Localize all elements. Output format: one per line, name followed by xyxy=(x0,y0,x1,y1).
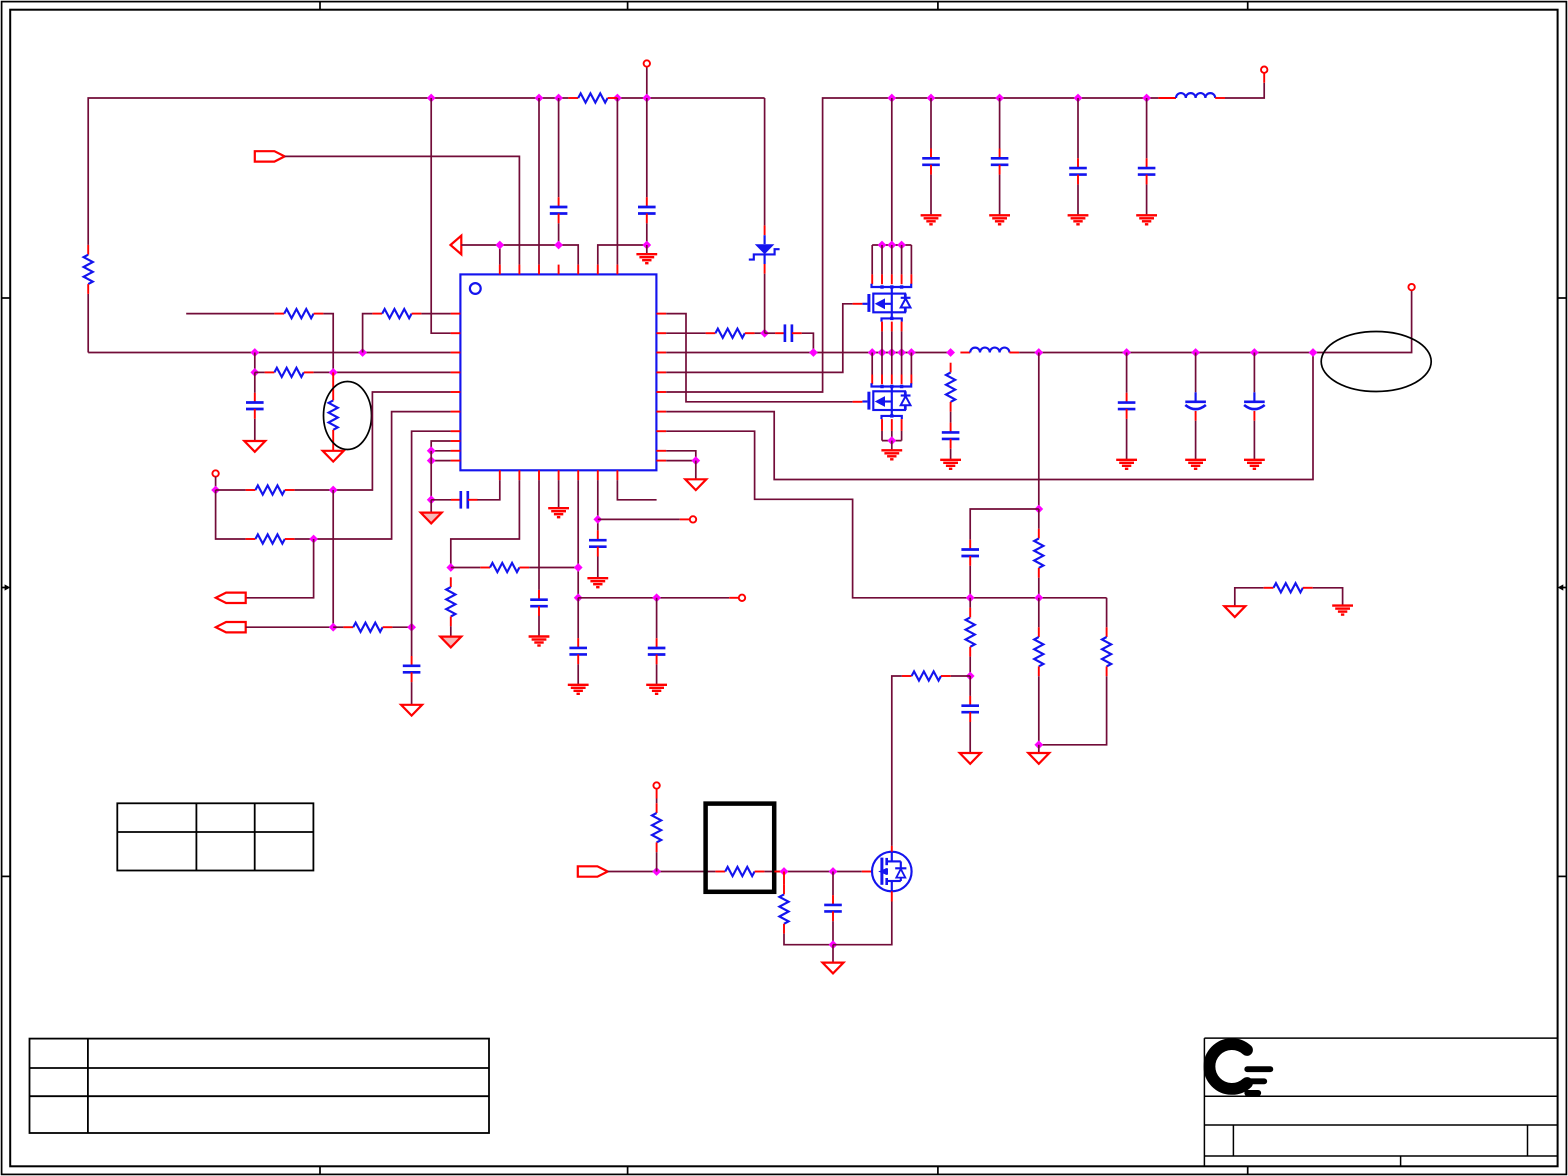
resistor R9 xyxy=(343,623,392,632)
wire pin460 right xyxy=(666,460,696,462)
wire ILIM net xyxy=(598,518,680,520)
wire C16 top xyxy=(1195,353,1197,393)
wire R12 to dot xyxy=(755,332,765,334)
port OUT2 xyxy=(216,622,246,632)
wire C11 top xyxy=(999,98,1001,149)
logo company mark xyxy=(1209,1044,1270,1093)
wire TP1 stub xyxy=(215,477,217,490)
wire pin431 route xyxy=(666,431,1106,598)
resistor R18 xyxy=(902,671,951,680)
wire AGND tie left xyxy=(1235,588,1264,606)
capacitor C16 polarized xyxy=(1185,392,1206,421)
pin TP1 open circle xyxy=(212,470,218,476)
wire L2 red lead2 xyxy=(1009,352,1019,354)
wire AVDD line xyxy=(461,245,578,265)
resistor R4 xyxy=(372,309,421,318)
junction x833 y871 xyxy=(829,867,838,876)
wire C17 gnd xyxy=(1253,421,1255,460)
junction VOUT x1313 xyxy=(1309,348,1318,357)
wire C5 left lead xyxy=(431,499,451,501)
wire bus to pin VCC1 xyxy=(431,98,450,333)
ground GND5 triangle xyxy=(421,513,442,524)
wire R7 right xyxy=(295,489,334,491)
wire pin558 down xyxy=(558,480,560,508)
wire pin431 net xyxy=(412,431,451,627)
junction CTRL x656 xyxy=(652,867,661,876)
capacitor C3 xyxy=(246,393,264,419)
junction VDD C13 xyxy=(1142,94,1151,103)
inductor L2 xyxy=(970,348,1009,353)
wire C11 gnd xyxy=(999,175,1001,215)
wire pin578 down xyxy=(577,480,579,598)
wire R3 to corner xyxy=(323,314,333,373)
wire AVDD stub1 xyxy=(499,245,501,265)
capacitor C1 xyxy=(550,197,568,223)
wire VIN bus top xyxy=(87,294,89,353)
capacitor C5 xyxy=(451,491,478,509)
resistor R11 xyxy=(446,577,455,626)
junction x431 y450 xyxy=(427,446,436,455)
wire R5 left lead xyxy=(255,371,265,373)
resistor R3 xyxy=(274,309,323,318)
pin TP3 open circle xyxy=(690,516,696,522)
resistor R5 xyxy=(265,368,314,377)
capacitor C7 xyxy=(569,638,587,664)
junction VIN bus x558 xyxy=(554,94,563,103)
ground C16 earth xyxy=(1185,460,1206,469)
capacitor C19 xyxy=(961,696,979,722)
wire C21 gnd xyxy=(656,664,658,684)
junction x313 y539 xyxy=(309,535,318,544)
wire Q2 source pins xyxy=(882,419,902,441)
wire C3 bottom xyxy=(254,419,256,441)
ground C21 earth xyxy=(646,685,667,694)
wire C20 top xyxy=(832,872,834,896)
resistor R14 xyxy=(1034,529,1043,578)
junction AVDD x499 xyxy=(495,241,504,250)
resistor R21 sense xyxy=(715,867,764,876)
wire R16 bottom xyxy=(1038,676,1040,745)
transistor Q1 high-side MOSFET xyxy=(862,294,910,313)
ground GND18 triangle xyxy=(823,963,844,974)
junction x431 y460 xyxy=(427,456,436,465)
ground C17 earth xyxy=(1244,460,1265,469)
wire R15 bottom xyxy=(969,657,971,676)
junction x1038 y597 xyxy=(1034,593,1043,602)
junction x431 y499 xyxy=(427,495,436,504)
border zone arrow right xyxy=(1558,584,1567,590)
capacitor C18 xyxy=(961,540,979,566)
wire Q1 gate red lead xyxy=(853,303,863,305)
junction x450 y567 xyxy=(446,563,455,572)
port EN input xyxy=(255,151,285,161)
wire snubber gnd xyxy=(950,449,952,460)
junction SW x950 xyxy=(946,348,955,357)
wire C21 top xyxy=(656,598,658,638)
transistor Q2 drain bracket xyxy=(872,383,912,391)
resistor R2 on VIN bus xyxy=(568,93,617,102)
wire R7 left xyxy=(216,489,246,491)
wire L1 red lead xyxy=(1158,97,1176,99)
junction SW x911 xyxy=(907,348,916,357)
pin VOUT open circle xyxy=(1408,284,1414,290)
resistor R7 xyxy=(246,485,295,494)
junction VOUT x1254 xyxy=(1250,348,1259,357)
wire Q2 gate red lead xyxy=(853,401,863,403)
pin VDD open circle xyxy=(1261,67,1267,73)
wire Q1 drain bar xyxy=(872,244,911,246)
wire pin313 to gate Q2 xyxy=(666,314,852,402)
wire C15 gnd xyxy=(1126,419,1128,459)
wire CTRL net xyxy=(608,871,716,873)
ground GND2 triangle xyxy=(244,441,265,452)
wire C17 top xyxy=(1253,353,1255,393)
junction x695 y460 xyxy=(691,456,700,465)
junction VIN bus x539 xyxy=(535,94,544,103)
junction VOUT x1038 xyxy=(1034,348,1043,357)
ground C10 earth xyxy=(921,215,942,224)
junction Q1 drain x901 xyxy=(897,241,906,250)
wire pin333 to R12 xyxy=(666,332,705,334)
wire R14 top xyxy=(1038,509,1040,529)
wire C15 top xyxy=(1126,353,1128,393)
wire Q2 source gnd xyxy=(891,441,893,450)
wire C7 gnd xyxy=(577,664,579,684)
resistor R13 snubber xyxy=(946,363,955,412)
wire pin392 to VDD bus xyxy=(666,98,892,392)
wire R15 top xyxy=(969,598,971,608)
wire C5 right xyxy=(477,480,499,500)
wire C7 top xyxy=(577,598,579,638)
wire C16 gnd xyxy=(1195,421,1197,460)
wire R4 to pin xyxy=(421,313,450,315)
junction VIN bus x617 xyxy=(613,94,622,103)
wire to C18 xyxy=(970,509,1039,540)
wire L2 to VOUT xyxy=(1019,352,1039,354)
wire C19 gnd xyxy=(969,722,971,753)
junction Q1 drain x882 xyxy=(878,241,887,250)
wire bus to pin VCC2 xyxy=(538,98,540,265)
wire L1 to pin xyxy=(1225,83,1264,98)
wire C9 to SW xyxy=(802,333,814,352)
ground GND17 earth xyxy=(1332,606,1353,615)
junction AVDD gnd xyxy=(642,241,651,250)
table notes (2x3) xyxy=(117,803,313,870)
wire VIN bus vertical xyxy=(88,98,568,245)
wire C12 gnd xyxy=(1077,184,1079,214)
port CTRL input xyxy=(578,866,608,876)
capacitor C6 xyxy=(530,590,548,616)
junction AVDD x558 xyxy=(554,241,563,250)
wire C13 gnd xyxy=(1146,184,1148,214)
ground GND9 earth xyxy=(568,685,589,694)
wire C12 top xyxy=(1077,98,1079,158)
junction VIN bus x431 xyxy=(427,94,436,103)
ground GND10 earth xyxy=(587,578,608,587)
wire AGND tie right xyxy=(1313,588,1343,605)
wire R8 to corner xyxy=(295,412,451,539)
transistor Q3 MOSFET xyxy=(872,852,912,892)
port OUT1 xyxy=(216,593,246,603)
wire C4 bottom xyxy=(411,682,413,705)
wire pin519 down xyxy=(451,480,520,567)
ground GND14 triangle xyxy=(1028,753,1049,764)
wire bus to pin VCC3 xyxy=(616,98,618,265)
transistor Q2 source bracket xyxy=(882,410,902,419)
wire R11 bottom xyxy=(450,626,452,636)
resistor R12 BST xyxy=(706,329,755,338)
wire C10 gnd xyxy=(930,175,932,215)
arrow AVDD net xyxy=(451,236,462,255)
wire R18 to Q3 gate xyxy=(892,676,902,846)
title block frame xyxy=(1204,1038,1557,1166)
inductor L1 xyxy=(1176,93,1215,98)
wire cap C1 top lead xyxy=(558,98,560,197)
capacitor C2 xyxy=(638,197,656,223)
wire CTRL net2 xyxy=(764,871,861,873)
wire EN net xyxy=(285,156,520,264)
junction VOUT x1195 xyxy=(1191,348,1200,357)
wire C9 left lead xyxy=(765,332,776,334)
wire vert x362 xyxy=(363,314,373,353)
box current sense module xyxy=(706,804,775,892)
capacitor C9 BST xyxy=(775,324,802,342)
junction SW x891 xyxy=(887,348,896,357)
border zone arrow left xyxy=(2,584,11,590)
junction x362 y352 xyxy=(358,348,367,357)
junction VDD C10 xyxy=(927,94,936,103)
junction x254 y372 xyxy=(250,368,259,377)
wire x1038 gnd xyxy=(1038,745,1040,753)
wire pin617 down xyxy=(617,480,656,500)
wire pin539 down xyxy=(538,480,540,590)
resistor R6 (circled) xyxy=(329,372,338,450)
wire ILIM red lead xyxy=(680,518,690,520)
wire C8 gnd xyxy=(597,557,599,578)
wire x1038 vert xyxy=(1038,353,1040,510)
wire SS red lead xyxy=(729,597,739,599)
transistor Q1 drain bracket xyxy=(872,284,912,294)
capacitor C11 xyxy=(991,149,1009,175)
junction x578 y597 xyxy=(574,593,583,602)
wire C19 top xyxy=(969,676,971,696)
wire R5 to pin xyxy=(314,371,451,373)
wire C10 top xyxy=(930,98,932,149)
wire L1 red lead2 xyxy=(1215,97,1225,99)
wire x333 down xyxy=(332,490,334,627)
wire pin450 right xyxy=(666,451,696,461)
junction VDD C12 xyxy=(1074,94,1083,103)
wire R20 top red xyxy=(656,789,658,804)
table revision history xyxy=(30,1039,490,1133)
wire R21 out red lead xyxy=(774,871,784,873)
wire VDD bus right xyxy=(892,97,1159,99)
ground GND11 triangle xyxy=(685,479,706,490)
wire Q3 gate red lead xyxy=(862,871,872,873)
wire VOUT rail xyxy=(1039,290,1412,352)
pin VIN open circle xyxy=(644,60,650,66)
wire x215 down xyxy=(216,490,246,539)
diode D1 zener xyxy=(749,225,780,273)
ground GND12 earth xyxy=(881,450,902,459)
capacitor C17 polarized xyxy=(1244,392,1265,421)
wire Q1 drain pins xyxy=(872,245,911,284)
ground GND6 triangle xyxy=(440,637,461,648)
wire C13 top xyxy=(1146,98,1148,158)
wire R10 left lead xyxy=(451,567,480,569)
junction x597 y519 xyxy=(593,515,602,524)
wire R9 left lead xyxy=(333,626,343,628)
resistor R8 xyxy=(246,534,295,543)
wire pin441 net xyxy=(431,441,450,451)
transistor Q2 low-side MOSFET xyxy=(862,391,910,410)
ground GND3 triangle xyxy=(323,451,344,462)
wire VDD pin red stub xyxy=(1263,73,1265,83)
wire R17 bottom xyxy=(1039,676,1107,745)
ground GND7 earth xyxy=(529,637,550,646)
wire R17 top xyxy=(1106,598,1108,627)
junction x411 y627 xyxy=(407,623,416,632)
junction x333 y372 xyxy=(329,368,338,377)
wire R16 top xyxy=(1038,598,1040,627)
capacitor C21 xyxy=(648,638,666,664)
wire Q2 drain pins xyxy=(872,353,911,385)
junction x333 y627 xyxy=(329,623,338,632)
junction SW x882 xyxy=(878,348,887,357)
ground GND16 triangle xyxy=(1224,606,1245,617)
wire R14 bottom xyxy=(1038,578,1040,598)
wire pin372 to gate Q1 xyxy=(666,304,852,373)
ground GND13 earth xyxy=(940,460,961,469)
resistor R22 xyxy=(779,885,788,934)
junction x215 y490 xyxy=(211,486,220,495)
ground GND4 triangle xyxy=(401,705,422,716)
wire cap C2 bottom xyxy=(646,223,648,245)
wire L2 red lead xyxy=(960,352,970,354)
capacitor C14 snubber xyxy=(942,423,960,449)
ground GND8 earth xyxy=(548,508,569,517)
junction VOUT x1126 xyxy=(1122,348,1131,357)
junction x784 y871 xyxy=(780,867,789,876)
capacitor C8 xyxy=(589,530,607,556)
wire C6 gnd lead xyxy=(538,616,540,636)
pin TP2 open circle xyxy=(739,595,745,601)
wire R22 bottom xyxy=(784,934,833,945)
resistor R15 xyxy=(966,608,975,657)
capacitor C15 xyxy=(1118,393,1136,419)
wire R10 right xyxy=(529,567,578,569)
wire pin460 left xyxy=(431,460,450,462)
transistor Q1 source bracket xyxy=(882,312,902,321)
wire Q1 source pins xyxy=(882,322,902,353)
junction Q1 drain x891 xyxy=(887,241,896,250)
junction VIN bus x646 xyxy=(642,94,651,103)
wire zener bottom xyxy=(764,274,766,334)
junction x970 y597 xyxy=(966,593,975,602)
wire cap C2 top lead xyxy=(646,98,648,197)
wire Q3 source route xyxy=(833,902,892,945)
junction x656 y597 xyxy=(652,593,661,602)
capacitor C10 xyxy=(922,149,940,175)
wire vert x254 seg xyxy=(254,353,256,373)
wire C20 bottom xyxy=(832,921,834,945)
wire x431 down xyxy=(430,451,432,500)
wire pin597 down xyxy=(597,480,599,530)
wire VIN bus right seg xyxy=(617,97,764,99)
wire x431 gnd xyxy=(430,500,432,513)
junction x970 y676 xyxy=(966,672,975,681)
wire zener top xyxy=(764,98,766,225)
ground GND1 earth xyxy=(636,254,657,263)
wire C4 top xyxy=(411,627,413,656)
resistor R1 input xyxy=(84,245,93,294)
wire pin392 net xyxy=(333,392,450,490)
wire cap C1 bottom xyxy=(558,223,560,245)
wire x695 gnd xyxy=(695,461,697,480)
junction x1038 y509 xyxy=(1034,505,1043,514)
wire Q3 source red lead xyxy=(891,891,893,901)
junction VDD C11 xyxy=(995,94,1004,103)
wire net FB1 left xyxy=(186,313,274,315)
wire R22 top red xyxy=(783,872,785,885)
resistor R10 xyxy=(480,563,529,572)
junction x333 y490 xyxy=(329,486,338,495)
ellipse annotation around R6 xyxy=(324,382,372,450)
pin pullup open circle xyxy=(653,782,659,788)
wire port2 to dot xyxy=(246,626,334,628)
IC U1 pin stubs xyxy=(451,265,667,481)
junction x578 y567 xyxy=(574,563,583,572)
IC U1 body xyxy=(460,274,656,470)
wire Q3 drain red lead xyxy=(891,846,893,852)
wire R9 right xyxy=(392,626,411,628)
junction SW x901 xyxy=(897,348,906,357)
wire R20 bottom xyxy=(656,852,658,871)
capacitor C12 xyxy=(1069,158,1087,184)
junction BST xyxy=(760,329,769,338)
ground C11 earth xyxy=(989,215,1010,224)
capacitor C4 xyxy=(403,656,421,682)
wire SW net xyxy=(666,352,950,354)
junction SW x872 xyxy=(868,348,877,357)
ground GND15 triangle xyxy=(960,753,981,764)
wire C3 top xyxy=(254,372,256,392)
resistor R19 gnd tie xyxy=(1264,583,1313,592)
wire x313 to port xyxy=(246,539,314,598)
ground C15 earth xyxy=(1116,460,1137,469)
wire SS net xyxy=(578,597,729,599)
wire snubber mid xyxy=(950,412,952,423)
ellipse annotation VOUT xyxy=(1321,332,1431,392)
junction SW x813 xyxy=(809,348,818,357)
wire AVDD gnd segment xyxy=(598,245,647,265)
wire VIN sense bus xyxy=(88,352,450,354)
wire VIN port stub xyxy=(646,67,648,98)
resistor R16 xyxy=(1034,627,1043,676)
capacitor C20 xyxy=(824,895,842,921)
wire x833 gnd xyxy=(832,945,834,963)
resistor R17 xyxy=(1102,627,1111,676)
wire AVDD gnd stub xyxy=(646,245,648,254)
ground C13 earth xyxy=(1136,215,1157,224)
junction VDD x891 xyxy=(887,94,896,103)
junction x833 y944 xyxy=(829,940,838,949)
resistor R20 pullup xyxy=(652,803,661,852)
junction Q2 source xyxy=(887,436,896,445)
junction x1038 y744 xyxy=(1034,740,1043,749)
wire pin450 left xyxy=(431,450,450,452)
wire C18 bottom xyxy=(969,566,971,598)
